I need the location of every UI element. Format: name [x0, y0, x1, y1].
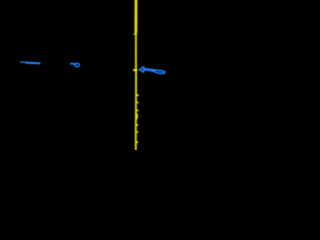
node: right tick y=132	[136, 131, 138, 133]
node: right tick y=102.5	[136, 101, 138, 103]
wire: blue dash stroke left (main body)	[26, 62, 40, 65]
wire: blue dash stroke left (thin lead-in)	[21, 61, 27, 63]
node: blue arrowhead triangle	[139, 67, 144, 72]
wire: yellow vertical line (main)	[135, 0, 137, 150]
node: right tick y=95	[136, 94, 138, 96]
node: wide bump y=116	[135, 114, 138, 119]
wire: yellow vertical line (thick top segment)	[135, 0, 138, 32]
wire: blue dash with loop (middle)	[71, 63, 76, 65]
node: marker tick on yellow line at y=70	[134, 69, 137, 71]
node: right tick y=142	[136, 141, 137, 144]
node: left tick on yellow line at y=34	[134, 33, 136, 35]
node: loop of middle stroke	[75, 63, 80, 66]
node: right tick y=125	[136, 124, 138, 126]
wire: blue arrow shaft with end loop	[144, 69, 165, 74]
node: right tick y=110.5	[136, 109, 138, 111]
